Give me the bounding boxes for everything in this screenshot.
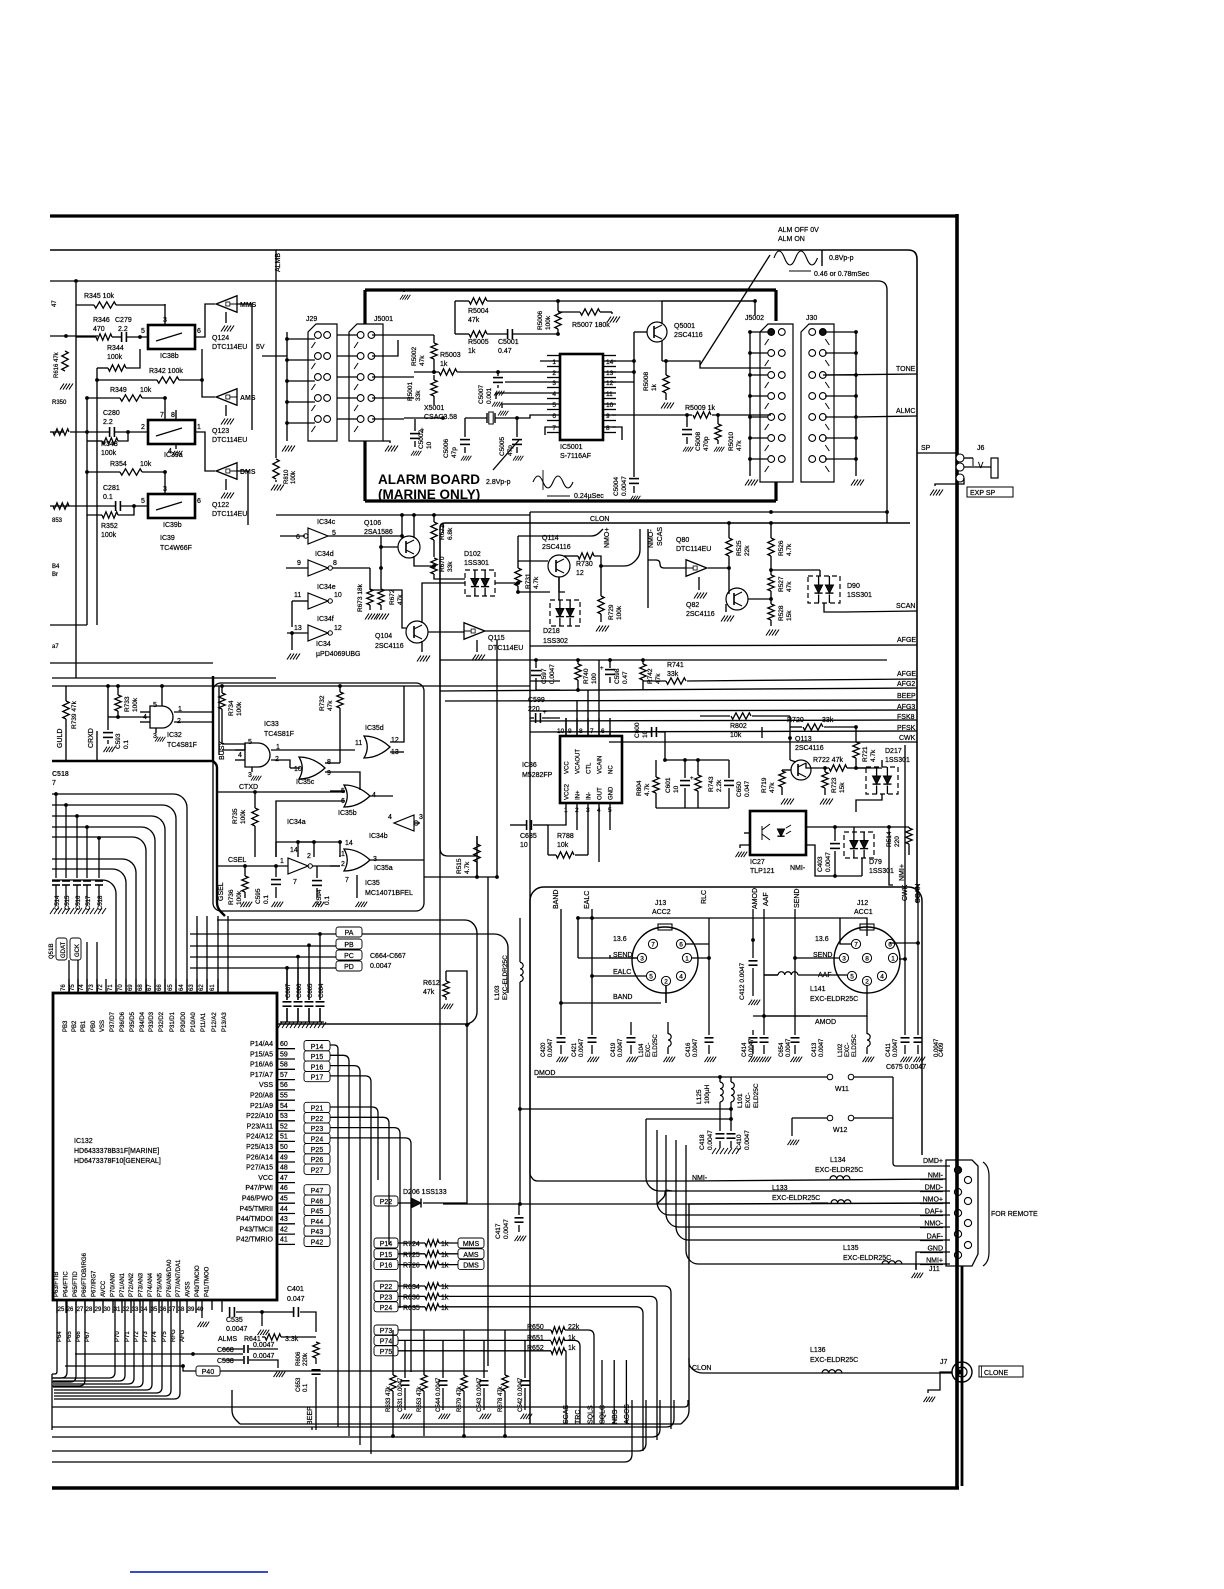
svg-text:R5001: R5001 xyxy=(407,381,414,401)
svg-text:100k: 100k xyxy=(545,315,552,330)
svg-text:C280: C280 xyxy=(103,410,120,417)
svg-text:Q5001: Q5001 xyxy=(674,323,695,330)
wire bottom outer frame xyxy=(52,1486,959,1490)
svg-text:12: 12 xyxy=(334,625,342,632)
resistor R515 4.7k xyxy=(474,844,480,862)
svg-text:47: 47 xyxy=(280,1175,288,1182)
svg-text:P66/FTOB/IRG6: P66/FTOB/IRG6 xyxy=(82,1252,88,1297)
svg-text:R802: R802 xyxy=(730,723,747,730)
svg-text:10: 10 xyxy=(606,402,614,409)
svg-text:P17/A7: P17/A7 xyxy=(250,1072,273,1079)
svg-text:8: 8 xyxy=(606,425,610,432)
svg-text:8: 8 xyxy=(171,412,175,419)
svg-text:1: 1 xyxy=(552,359,556,366)
svg-text:C418: C418 xyxy=(699,1134,706,1150)
svg-text:AMOD: AMOD xyxy=(752,888,759,909)
svg-text:PD: PD xyxy=(344,964,354,971)
svg-text:R743: R743 xyxy=(708,776,715,792)
svg-text:0.46 or 0.78mSec: 0.46 or 0.78mSec xyxy=(814,271,870,278)
svg-text:P24: P24 xyxy=(311,1137,324,1144)
svg-text:C668: C668 xyxy=(217,1347,234,1354)
svg-text:470p: 470p xyxy=(703,436,710,451)
svg-text:10k: 10k xyxy=(140,461,152,468)
wire DAF+ row xyxy=(657,1130,950,1215)
wire ALMC xyxy=(856,416,917,417)
wire AFG3 xyxy=(530,710,917,711)
wire TONE xyxy=(823,374,917,375)
svg-text:C416: C416 xyxy=(686,1042,692,1057)
svg-text:59: 59 xyxy=(280,1051,288,1058)
svg-text:100k: 100k xyxy=(291,470,297,484)
svg-text:C600: C600 xyxy=(634,722,641,738)
svg-text:0.47: 0.47 xyxy=(622,671,629,684)
svg-text:P21/A9: P21/A9 xyxy=(250,1103,273,1110)
svg-text:72: 72 xyxy=(98,984,104,991)
svg-text:IC34c: IC34c xyxy=(317,519,336,526)
wire ACC2 band xyxy=(561,1002,661,1004)
svg-text:1: 1 xyxy=(280,858,284,865)
svg-text:65: 65 xyxy=(168,984,174,991)
svg-text:VCC: VCC xyxy=(565,761,571,774)
svg-text:R5006: R5006 xyxy=(537,310,544,330)
svg-text:ALM ON: ALM ON xyxy=(778,236,805,243)
svg-text:VCAIN: VCAIN xyxy=(598,756,604,774)
svg-text:EXC-ELDR25C: EXC-ELDR25C xyxy=(810,996,858,1003)
svg-text:C517: C517 xyxy=(86,895,92,910)
svg-text:P40/TMCIO: P40/TMCIO xyxy=(195,1265,201,1297)
svg-text:2SC4116: 2SC4116 xyxy=(686,611,715,618)
svg-text:SP: SP xyxy=(921,445,931,452)
svg-text:8: 8 xyxy=(333,560,337,567)
svg-text:Q113: Q113 xyxy=(795,736,812,743)
wire R515 rail xyxy=(424,876,477,878)
svg-text:P76/AN6/DA0: P76/AN6/DA0 xyxy=(167,1259,173,1297)
svg-text:10: 10 xyxy=(673,785,680,793)
capacitor C535 0.0047 xyxy=(221,1300,223,1312)
svg-text:12: 12 xyxy=(391,737,399,744)
svg-text:R5005: R5005 xyxy=(468,339,489,346)
svg-text:HD6473378F10[GENERAL]: HD6473378F10[GENERAL] xyxy=(74,1158,161,1165)
svg-text:4: 4 xyxy=(238,752,242,759)
svg-text:13.6: 13.6 xyxy=(815,936,829,943)
svg-text:P34/D4: P34/D4 xyxy=(140,1011,146,1032)
svg-text:P46: P46 xyxy=(311,1198,324,1205)
svg-text:CRXD: CRXD xyxy=(88,728,95,748)
svg-text:R342 100k: R342 100k xyxy=(149,368,183,375)
bus fan horizontal lines xyxy=(52,794,187,993)
ground J5001 xyxy=(385,446,398,452)
svg-text:2.8Vp-p: 2.8Vp-p xyxy=(486,479,511,486)
IC39a analog switch xyxy=(148,420,195,444)
svg-text:9: 9 xyxy=(606,413,610,420)
wire Q113 base rail xyxy=(761,727,763,738)
svg-text:EXC-ELDR25C: EXC-ELDR25C xyxy=(810,1357,858,1364)
svg-text:NMI-: NMI- xyxy=(928,1173,944,1180)
IC39b analog switch xyxy=(148,494,195,518)
svg-text:P42: P42 xyxy=(311,1240,324,1247)
svg-text:P15: P15 xyxy=(380,1252,393,1259)
wire rail y660 xyxy=(440,659,887,661)
wire mid verticals xyxy=(487,877,489,1366)
svg-text:57: 57 xyxy=(280,1072,288,1079)
svg-text:J12: J12 xyxy=(857,900,868,907)
svg-text:HD6433378B31F[MARINE]: HD6433378B31F[MARINE] xyxy=(74,1148,159,1155)
svg-text:IC38b: IC38b xyxy=(160,353,179,360)
svg-text:ELD25C: ELD25C xyxy=(852,1034,858,1057)
svg-text:36: 36 xyxy=(160,1307,167,1313)
svg-text:5: 5 xyxy=(248,739,252,746)
svg-text:AVSS: AVSS xyxy=(186,1281,192,1297)
svg-text:R804: R804 xyxy=(636,780,643,796)
svg-text:ELD25C: ELD25C xyxy=(653,1034,659,1057)
svg-text:C515: C515 xyxy=(65,895,71,910)
svg-text:P67/IRG7: P67/IRG7 xyxy=(92,1270,98,1297)
svg-text:R515: R515 xyxy=(456,858,463,874)
svg-text:0.047: 0.047 xyxy=(744,780,751,797)
svg-text:P47: P47 xyxy=(311,1188,324,1195)
svg-text:13.6: 13.6 xyxy=(613,936,627,943)
svg-text:2.2: 2.2 xyxy=(103,419,113,426)
svg-text:3: 3 xyxy=(419,814,423,821)
svg-text:C412 0.0047: C412 0.0047 xyxy=(739,962,746,1000)
svg-text:GCK: GCK xyxy=(75,944,81,957)
wire NMO- row xyxy=(666,1135,950,1227)
svg-text:SCAS: SCAS xyxy=(657,527,664,546)
inductor L141 on AAF xyxy=(778,972,798,975)
svg-text:IC32: IC32 xyxy=(167,732,182,739)
svg-text:0.047: 0.047 xyxy=(287,1296,305,1303)
wire IC5001 right pins rail xyxy=(633,332,635,476)
svg-text:AVCC: AVCC xyxy=(101,1280,107,1297)
OR gate IC35d xyxy=(364,736,390,758)
wire GND row xyxy=(930,1251,950,1253)
svg-text:MMS: MMS xyxy=(240,302,257,309)
CLON block right border xyxy=(681,1204,689,1424)
CLON block left border xyxy=(439,533,441,1180)
svg-text:P22/A10: P22/A10 xyxy=(246,1113,273,1120)
svg-text:a7: a7 xyxy=(52,644,59,650)
wire y625 xyxy=(50,624,87,626)
svg-text:P73/AN3: P73/AN3 xyxy=(139,1272,145,1297)
svg-text:J6: J6 xyxy=(977,445,985,452)
svg-text:EXC-: EXC- xyxy=(646,1043,652,1057)
block frame around IC36 xyxy=(440,533,477,856)
svg-text:C601: C601 xyxy=(665,777,672,793)
svg-text:P64/FTIC: P64/FTIC xyxy=(63,1271,69,1297)
svg-text:22k: 22k xyxy=(568,1324,580,1331)
svg-text:2SC4116: 2SC4116 xyxy=(795,745,824,752)
svg-text:63: 63 xyxy=(189,984,195,991)
svg-text:+: + xyxy=(600,666,604,672)
svg-text:D206 1SS133: D206 1SS133 xyxy=(403,1189,447,1196)
svg-text:D102: D102 xyxy=(464,551,481,558)
svg-text:R672: R672 xyxy=(389,589,396,605)
svg-text:PFSK: PFSK xyxy=(897,725,916,732)
svg-text:GND: GND xyxy=(609,786,615,800)
svg-text:P42/TMRIO: P42/TMRIO xyxy=(236,1237,274,1244)
svg-text:10k: 10k xyxy=(730,732,742,739)
wire DMD+ from top xyxy=(893,1160,950,1166)
svg-text:0.8Vp-p: 0.8Vp-p xyxy=(829,255,854,262)
svg-text:P20/A8: P20/A8 xyxy=(250,1093,273,1100)
wire J5002 feed xyxy=(749,332,751,476)
svg-text:µPD4069UBG: µPD4069UBG xyxy=(316,651,361,658)
svg-text:SEND: SEND xyxy=(794,889,801,908)
svg-text:10: 10 xyxy=(520,842,528,849)
wire CWK xyxy=(609,741,917,743)
wires P21-P24 cells xyxy=(330,1107,378,1180)
svg-text:4.7k: 4.7k xyxy=(870,749,877,762)
bottom RC filters xyxy=(390,1375,396,1391)
svg-text:EXC-: EXC- xyxy=(745,1092,752,1108)
wire top-left rail xyxy=(74,279,78,283)
svg-text:R725: R725 xyxy=(403,1252,420,1259)
svg-text:P22: P22 xyxy=(380,1284,393,1291)
svg-text:BAND: BAND xyxy=(553,890,560,909)
svg-text:C514: C514 xyxy=(55,895,61,910)
svg-text:R731: R731 xyxy=(525,573,532,589)
ground IC27 xyxy=(740,845,750,848)
svg-text:M5282FP: M5282FP xyxy=(522,772,553,779)
svg-text:P22: P22 xyxy=(380,1199,393,1206)
svg-text:0.0047: 0.0047 xyxy=(934,1038,940,1057)
svg-text:10k: 10k xyxy=(140,387,152,394)
svg-text:40: 40 xyxy=(197,1307,204,1313)
svg-text:22k: 22k xyxy=(744,545,751,556)
svg-text:IC35b: IC35b xyxy=(338,810,357,817)
svg-text:61: 61 xyxy=(210,984,216,991)
svg-text:100k: 100k xyxy=(616,605,623,620)
wire y663 xyxy=(50,662,213,664)
wire DAF- row xyxy=(676,1140,950,1240)
capacitor C594 0.1 xyxy=(312,880,322,882)
svg-text:8: 8 xyxy=(579,728,583,735)
svg-text:P66: P66 xyxy=(76,1331,82,1342)
svg-text:P63/FTIB: P63/FTIB xyxy=(54,1272,60,1297)
svg-text:IC35a: IC35a xyxy=(374,865,393,872)
svg-text:TLP121: TLP121 xyxy=(750,868,775,875)
svg-text:IC27: IC27 xyxy=(750,859,765,866)
svg-text:C5004: C5004 xyxy=(613,476,620,496)
svg-text:1SS301: 1SS301 xyxy=(869,868,894,875)
resistor R735 100k xyxy=(252,808,258,826)
svg-text:TC4W66F: TC4W66F xyxy=(160,545,192,552)
svg-text:C5001: C5001 xyxy=(498,339,519,346)
svg-text:2SA1586: 2SA1586 xyxy=(364,529,393,536)
svg-text:R724: R724 xyxy=(403,1241,420,1248)
ground J29 xyxy=(282,446,295,452)
connector J11 remote xyxy=(946,1160,978,1266)
svg-text:1: 1 xyxy=(197,424,201,431)
svg-text:1k: 1k xyxy=(441,1263,449,1270)
svg-text:R636: R636 xyxy=(403,1294,420,1301)
svg-text:AMOD: AMOD xyxy=(815,1019,836,1026)
svg-text:56: 56 xyxy=(280,1082,288,1089)
wire PC xyxy=(190,956,336,958)
svg-text:P23: P23 xyxy=(311,1126,324,1133)
svg-text:55: 55 xyxy=(280,1093,288,1100)
svg-text:ACC2: ACC2 xyxy=(652,909,671,916)
svg-text:BAND: BAND xyxy=(613,994,632,1001)
svg-text:IC33: IC33 xyxy=(264,721,279,728)
svg-text:PB3: PB3 xyxy=(63,1020,69,1032)
svg-text:43: 43 xyxy=(280,1216,288,1223)
svg-text:P43: P43 xyxy=(311,1229,324,1236)
svg-text:0.0047: 0.0047 xyxy=(253,1342,275,1349)
svg-text:Q124: Q124 xyxy=(212,335,229,342)
svg-text:4.7k: 4.7k xyxy=(644,783,651,796)
svg-text:AFG2: AFG2 xyxy=(897,681,915,688)
svg-text:34: 34 xyxy=(141,1307,148,1313)
svg-text:BEEP: BEEP xyxy=(307,1406,314,1425)
svg-text:EXC-: EXC- xyxy=(845,1043,851,1057)
svg-text:0.0047: 0.0047 xyxy=(707,1130,714,1150)
svg-text:100µH: 100µH xyxy=(704,1084,711,1104)
OR gate IC35a xyxy=(344,849,370,871)
svg-text:0.0047: 0.0047 xyxy=(226,1326,248,1333)
svg-text:P44/TMDOI: P44/TMDOI xyxy=(236,1216,273,1223)
svg-text:51: 51 xyxy=(280,1134,288,1141)
inverter-driver Q122 DMS xyxy=(216,463,237,480)
svg-text:R344: R344 xyxy=(107,345,124,352)
svg-text:1k: 1k xyxy=(468,348,476,355)
svg-text:Q122: Q122 xyxy=(212,502,229,509)
svg-text:P14: P14 xyxy=(311,1044,324,1051)
ground J7 xyxy=(928,1372,952,1393)
svg-text:EXC-ELDR25C: EXC-ELDR25C xyxy=(815,1167,863,1174)
svg-text:C403: C403 xyxy=(817,856,824,872)
svg-text:NMI-: NMI- xyxy=(790,865,806,872)
svg-text:38: 38 xyxy=(178,1307,185,1313)
svg-text:2: 2 xyxy=(307,853,311,860)
svg-text:PB0: PB0 xyxy=(91,1020,97,1032)
AND gate IC33 xyxy=(245,743,270,767)
svg-text:Q80: Q80 xyxy=(676,537,689,544)
svg-text:SCAN: SCAN xyxy=(896,603,915,610)
resistor R734 100k xyxy=(219,693,225,709)
svg-text:6: 6 xyxy=(679,942,683,949)
svg-text:ALMB: ALMB xyxy=(275,253,282,272)
svg-text:64: 64 xyxy=(179,984,185,991)
svg-text:R741: R741 xyxy=(667,662,684,669)
ground R616 xyxy=(60,384,73,390)
svg-text:P37/D7: P37/D7 xyxy=(110,1011,116,1032)
svg-text:X5001: X5001 xyxy=(424,405,444,412)
IC132 microcontroller box xyxy=(53,993,277,1300)
wire C417 xyxy=(443,1203,688,1205)
svg-text:ACC1: ACC1 xyxy=(854,909,873,916)
resistor R736 100k xyxy=(242,876,248,892)
wire right outer frame xyxy=(955,214,959,1488)
svg-text:P70: P70 xyxy=(115,1331,121,1342)
svg-text:C518: C518 xyxy=(98,895,104,910)
svg-text:B4: B4 xyxy=(52,564,60,570)
svg-text:P36/D6: P36/D6 xyxy=(120,1011,126,1032)
resistor R353 stub xyxy=(53,503,69,509)
svg-text:1: 1 xyxy=(685,956,689,963)
svg-text:53: 53 xyxy=(280,1113,288,1120)
svg-text:P21: P21 xyxy=(311,1106,324,1113)
svg-text:R5009 1k: R5009 1k xyxy=(685,405,715,412)
svg-text:P45/TMRII: P45/TMRII xyxy=(240,1206,274,1213)
svg-text:BEEP: BEEP xyxy=(897,693,916,700)
svg-text:7: 7 xyxy=(52,780,56,787)
svg-text:J30: J30 xyxy=(806,315,817,322)
svg-text:4: 4 xyxy=(388,814,392,821)
svg-text:1k: 1k xyxy=(651,383,658,391)
svg-text:IC5001: IC5001 xyxy=(560,444,583,451)
svg-text:0.0047: 0.0047 xyxy=(893,1038,899,1057)
FOR REMOTE bracket xyxy=(983,1162,989,1266)
wire PFSK xyxy=(530,731,917,732)
wire y686 rail xyxy=(52,685,530,687)
svg-text:14: 14 xyxy=(290,847,298,854)
svg-text:27: 27 xyxy=(77,1307,84,1313)
wire SCAN exit xyxy=(844,611,917,612)
svg-text:P25/A13: P25/A13 xyxy=(246,1144,273,1151)
svg-text:AAF: AAF xyxy=(763,892,770,906)
svg-text:14: 14 xyxy=(606,359,614,366)
svg-text:3: 3 xyxy=(842,956,846,963)
svg-text:R810: R810 xyxy=(284,469,290,484)
svg-text:44: 44 xyxy=(280,1206,288,1213)
svg-text:AFG3: AFG3 xyxy=(897,704,915,711)
svg-text:10: 10 xyxy=(334,592,342,599)
svg-text:33k: 33k xyxy=(415,390,422,401)
svg-text:68: 68 xyxy=(138,984,144,991)
svg-text:IC35c: IC35c xyxy=(296,779,315,786)
svg-text:Q104: Q104 xyxy=(375,633,392,640)
wire AMS rail xyxy=(50,335,98,337)
svg-text:Br: Br xyxy=(52,572,58,578)
svg-text:1SS301: 1SS301 xyxy=(464,560,489,567)
svg-text:13: 13 xyxy=(294,625,302,632)
svg-text:VCC2: VCC2 xyxy=(565,783,571,800)
svg-text:P30/D0: P30/D0 xyxy=(181,1011,187,1032)
svg-text:R350: R350 xyxy=(52,400,67,406)
svg-text:P73: P73 xyxy=(143,1331,149,1342)
svg-text:10: 10 xyxy=(294,766,302,773)
svg-text:29: 29 xyxy=(95,1307,102,1313)
capacitor C595 0.1 xyxy=(271,879,281,881)
svg-text:RLC: RLC xyxy=(701,890,708,904)
svg-text:GDAT: GDAT xyxy=(61,941,67,958)
svg-text:0.1: 0.1 xyxy=(324,896,331,905)
wire IC36 top pins xyxy=(565,718,567,736)
svg-text:0.0047: 0.0047 xyxy=(693,1038,699,1057)
svg-text:P72/AN2: P72/AN2 xyxy=(129,1272,135,1297)
svg-text:R729: R729 xyxy=(608,604,615,620)
svg-text:R679 47k: R679 47k xyxy=(457,1385,463,1412)
svg-text:S-7116AF: S-7116AF xyxy=(560,453,591,460)
svg-text:R633 47k: R633 47k xyxy=(386,1385,392,1412)
svg-text:47k: 47k xyxy=(397,594,404,605)
wire BEEP xyxy=(445,700,917,701)
svg-text:9: 9 xyxy=(297,560,301,567)
svg-text:P75: P75 xyxy=(162,1331,168,1342)
svg-text:+: + xyxy=(420,427,424,434)
svg-text:100k: 100k xyxy=(101,450,117,457)
svg-text:P74: P74 xyxy=(380,1338,393,1345)
svg-text:50: 50 xyxy=(280,1144,288,1151)
svg-text:47: 47 xyxy=(52,300,58,307)
svg-text:IC34e: IC34e xyxy=(317,584,336,591)
svg-text:39: 39 xyxy=(188,1307,195,1313)
svg-text:5: 5 xyxy=(153,702,157,709)
svg-text:P75/AN5: P75/AN5 xyxy=(157,1272,163,1297)
svg-text:CSEL: CSEL xyxy=(228,857,246,864)
svg-text:1k: 1k xyxy=(441,1241,449,1248)
